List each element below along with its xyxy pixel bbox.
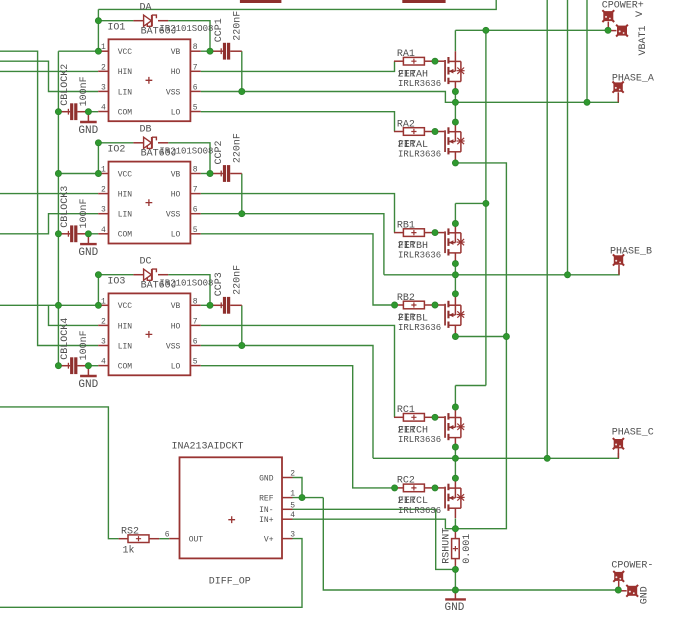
- wire VB1 node: [201, 50, 212, 52]
- svg-text:IRLR3636: IRLR3636: [398, 323, 441, 333]
- svg-text:IRLR3636: IRLR3636: [398, 251, 441, 261]
- svg-text:LIN: LIN: [118, 88, 133, 97]
- wire CCP1 to VSS1: [241, 51, 243, 91]
- svg-text:LO: LO: [171, 363, 181, 372]
- wire VCC vertical rail: [57, 51, 59, 366]
- node junction at 242,92: [239, 88, 245, 94]
- wire GND rail bottom: [323, 498, 618, 590]
- node junction at 210,305: [207, 302, 213, 308]
- node junction at 98,305: [95, 302, 101, 308]
- wire HO2 to RB1: [201, 194, 395, 233]
- svg-text:4: 4: [101, 358, 106, 367]
- wire LO3 to RC2: [201, 366, 395, 488]
- svg-text:BAT60J: BAT60J: [141, 280, 177, 291]
- svg-text:7: 7: [193, 186, 198, 195]
- cropped component top edge left: [240, 0, 282, 3]
- wire PHASE_B line: [384, 270, 619, 275]
- pad CPOWER+: [602, 1, 644, 31]
- svg-text:7: 7: [193, 317, 198, 326]
- svg-text:BAT60J: BAT60J: [141, 26, 177, 37]
- svg-text:V+: V+: [264, 536, 274, 545]
- node junction at 435,305: [432, 302, 438, 308]
- wire PHASE_C line: [373, 453, 618, 458]
- svg-text:RSHUNT: RSHUNT: [441, 528, 452, 564]
- svg-text:5: 5: [193, 226, 198, 235]
- wire VSS2 to phase B: [201, 214, 384, 275]
- wire VCC3 from left edge: [0, 304, 98, 306]
- ground GND section 1: [78, 112, 98, 137]
- svg-text:VBAT1: VBAT1: [638, 25, 649, 55]
- node junction at 58,305: [55, 302, 61, 308]
- node junction at 455,458: [452, 455, 458, 461]
- svg-text:100nF: 100nF: [79, 330, 90, 360]
- pad GND: [618, 585, 650, 604]
- wire VBAT vertical: [485, 30, 487, 385]
- wire DC cathode to VB3: [168, 275, 210, 306]
- node junction at 455,447: [452, 444, 458, 450]
- node junction at 455,163: [452, 160, 458, 166]
- node junction at 58,112: [55, 109, 61, 115]
- transistor FETAL IRLR3636: [398, 122, 465, 162]
- svg-text:CCP1: CCP1: [214, 18, 225, 42]
- capacitor CCP2 220nF: [210, 133, 244, 182]
- node junction at 242,346: [239, 342, 245, 348]
- node junction at 587,102: [584, 99, 590, 105]
- gate driver IC IO2 IR2101SO08: [98, 145, 213, 244]
- svg-text:4: 4: [101, 104, 106, 113]
- svg-text:PHASE_B: PHASE_B: [610, 247, 652, 258]
- wire phase C node: [454, 447, 456, 478]
- gate driver IC IO3 IR2101SO08: [98, 277, 213, 376]
- wire HIN3 branch: [49, 305, 99, 325]
- node junction at 455,92: [452, 88, 458, 94]
- svg-text:6: 6: [193, 206, 198, 215]
- wire INA IN+ to shunt top: [293, 519, 456, 529]
- wire DB cathode to VB2: [168, 143, 210, 174]
- svg-text:RS2: RS2: [121, 526, 139, 537]
- svg-text:HIN: HIN: [118, 68, 133, 77]
- node junction at 88,234: [85, 231, 91, 237]
- wire PHASE_A up column: [586, 0, 588, 102]
- svg-text:PHASE_A: PHASE_A: [612, 74, 654, 85]
- svg-text:HIN: HIN: [118, 322, 133, 331]
- svg-text:CCP2: CCP2: [214, 140, 225, 164]
- diode DC BAT60J: [133, 257, 176, 292]
- capacitor CCP3 220nF: [210, 265, 244, 314]
- cropped component top edge right: [402, 0, 445, 3]
- svg-text:CPOWER+: CPOWER+: [602, 1, 644, 12]
- wire DA anode/vertical: [97, 9, 99, 51]
- wire RS2 feed from left: [0, 407, 119, 539]
- svg-text:7: 7: [193, 63, 198, 72]
- node junction at 455,294: [452, 291, 458, 297]
- wire phase A node: [454, 92, 456, 123]
- svg-text:2: 2: [290, 470, 295, 479]
- wire VSS3 to phase C: [201, 346, 373, 459]
- wire FETBH drain rail: [455, 202, 486, 204]
- ground GND at shunt: [445, 590, 466, 614]
- svg-text:IN+: IN+: [259, 516, 274, 525]
- node junction at 486,30: [483, 27, 489, 33]
- node junction at 618,590: [615, 587, 621, 593]
- svg-text:CCP3: CCP3: [214, 272, 225, 296]
- resistor RB1 4R7 gate resistor: [394, 229, 435, 237]
- svg-text:DA: DA: [140, 3, 152, 14]
- svg-text:VSS: VSS: [166, 342, 181, 351]
- wire INA REF pin: [293, 497, 324, 499]
- wire VSS1 to phase A: [201, 92, 456, 103]
- wire LO2 to RB2: [201, 234, 395, 305]
- capacitor CBLOCK2 100nF: [58, 64, 90, 120]
- node junction at 98,174: [95, 170, 101, 176]
- svg-text:IN-: IN-: [259, 506, 273, 515]
- svg-text:IO3: IO3: [107, 277, 125, 288]
- node junction at 210,174: [207, 170, 213, 176]
- node junction at 455,264: [452, 261, 458, 267]
- svg-text:6: 6: [193, 83, 198, 92]
- wire DC anode/vertical: [98, 274, 133, 276]
- wire shunt to gnd rail: [454, 569, 456, 590]
- svg-text:5: 5: [290, 501, 295, 510]
- svg-text:RB1: RB1: [397, 220, 415, 231]
- svg-text:GND: GND: [640, 586, 651, 604]
- pad PHASE_A: [612, 74, 654, 103]
- svg-text:IRLR3636: IRLR3636: [398, 79, 441, 89]
- svg-text:2: 2: [101, 63, 106, 72]
- wire LO1 to RA2: [201, 112, 395, 132]
- node junction at 506,336: [503, 333, 509, 339]
- svg-text:DC: DC: [140, 257, 152, 268]
- node junction at 435,132: [432, 128, 438, 134]
- resistor RC1 4R7 gate resistor: [394, 414, 435, 422]
- svg-text:IO2: IO2: [107, 145, 125, 156]
- svg-text:VCC: VCC: [118, 302, 133, 311]
- node junction at 58,174: [55, 170, 61, 176]
- svg-text:CBLOCK4: CBLOCK4: [60, 318, 71, 360]
- wire INA GND pin: [293, 478, 303, 498]
- gate driver IC IO1 IR2101SO08: [98, 22, 213, 121]
- op-amp U1 INA213AIDCKT DIFF_OP: [165, 442, 296, 588]
- svg-text:6: 6: [193, 338, 198, 347]
- wire HO1 to RA1: [201, 61, 395, 71]
- resistor RA2 4R7 gate resistor: [394, 128, 435, 136]
- svg-text:VCC: VCC: [118, 170, 133, 179]
- svg-text:4: 4: [290, 511, 295, 520]
- capacitor CCP1 220nF: [210, 11, 244, 60]
- wire LIN1 from left edge: [0, 61, 98, 91]
- svg-text:8: 8: [193, 166, 198, 175]
- node junction at 455,102: [452, 99, 458, 105]
- svg-text:V: V: [635, 11, 646, 17]
- transistor FETCL IRLR3636: [398, 478, 465, 518]
- wire HO3 to RC1: [201, 325, 395, 417]
- wire CCP3 to VSS3: [241, 305, 243, 345]
- resistor RA1 4R7 gate resistor: [394, 57, 435, 65]
- diode DB BAT60J: [133, 125, 176, 160]
- svg-text:VB: VB: [171, 48, 181, 57]
- wire VCC top bootstrap feed: [98, 0, 496, 9]
- svg-text:COM: COM: [118, 231, 133, 240]
- node junction at 608,30: [605, 27, 611, 33]
- resistor RSHUNT 0.001: [441, 528, 473, 570]
- svg-text:HO: HO: [171, 68, 181, 77]
- svg-text:100nF: 100nF: [79, 76, 90, 106]
- svg-text:BAT60J: BAT60J: [141, 148, 177, 159]
- wire INA V+ return: [0, 539, 302, 608]
- svg-text:IO1: IO1: [107, 22, 125, 33]
- transistor FETBH IRLR3636: [398, 224, 465, 263]
- wire VB3 node: [201, 304, 212, 306]
- node junction at 210,51: [207, 48, 213, 54]
- svg-text:RC1: RC1: [397, 405, 415, 416]
- resistor RS2 1k: [119, 526, 160, 556]
- wire DB anode/vertical: [98, 142, 133, 144]
- node junction at 568,275: [564, 272, 570, 278]
- svg-text:IRLR3636: IRLR3636: [398, 435, 441, 445]
- pad CPOWER-: [611, 561, 653, 590]
- svg-text:2: 2: [101, 186, 106, 195]
- node junction at 455,529: [452, 526, 458, 532]
- svg-text:3: 3: [101, 83, 106, 92]
- svg-text:100nF: 100nF: [79, 198, 90, 228]
- svg-text:RB2: RB2: [397, 293, 415, 304]
- node junction at 435,417: [432, 414, 438, 420]
- pad PHASE_B: [610, 247, 652, 275]
- svg-text:RA2: RA2: [397, 119, 415, 130]
- wire FETAH drain from VBAT rail: [454, 30, 456, 51]
- svg-text:1k: 1k: [123, 544, 135, 556]
- svg-text:OUT: OUT: [189, 536, 204, 545]
- node junction at 58,366: [55, 363, 61, 369]
- wire HIN1 from left edge: [0, 70, 98, 72]
- svg-text:CPOWER-: CPOWER-: [611, 561, 653, 572]
- node junction at 88,366: [85, 363, 91, 369]
- svg-text:LIN: LIN: [118, 342, 133, 351]
- svg-text:PHASE_C: PHASE_C: [612, 428, 654, 439]
- node junction at 486,203: [483, 200, 489, 206]
- node junction at 58,234: [55, 231, 61, 237]
- svg-text:VSS: VSS: [166, 88, 181, 97]
- transistor FETCH IRLR3636: [398, 407, 465, 448]
- node junction at 98,21: [95, 18, 101, 24]
- wire DA cathode to VB1: [168, 21, 210, 52]
- diode DA BAT60J: [133, 3, 176, 38]
- node junction at 455,275: [452, 272, 458, 278]
- wire FETBL source to bus: [455, 336, 506, 338]
- wire PHASE_B up column: [567, 0, 569, 275]
- svg-text:IRLR3636: IRLR3636: [398, 149, 441, 159]
- svg-text:3: 3: [290, 531, 295, 540]
- wire LIN3 from left edge: [0, 51, 98, 345]
- wire HIN2 from left edge: [0, 193, 98, 195]
- wire VB2 node: [201, 173, 212, 175]
- svg-text:5: 5: [193, 104, 198, 113]
- node junction at 98,51: [95, 48, 101, 54]
- wire VCC1 row: [58, 50, 98, 52]
- wire FETCH drain rail: [455, 385, 486, 387]
- node junction at 455,478: [452, 475, 458, 481]
- svg-text:GND: GND: [78, 379, 98, 391]
- wire COM1 to cap: [88, 111, 98, 113]
- node junction at 395,305: [392, 302, 398, 308]
- svg-text:HIN: HIN: [118, 191, 133, 200]
- wire LIN2 from left edge: [0, 214, 98, 234]
- node junction at 435,61: [432, 58, 438, 64]
- node junction at 302,498: [299, 495, 305, 501]
- svg-text:REF: REF: [259, 495, 274, 504]
- pad PHASE_C: [612, 428, 654, 459]
- wire VCC2 row: [58, 173, 98, 175]
- node junction at 88,112: [85, 109, 91, 115]
- node junction at 435,488: [432, 485, 438, 491]
- svg-text:5: 5: [193, 358, 198, 367]
- node junction at 547,458: [544, 455, 550, 461]
- svg-text:CBLOCK3: CBLOCK3: [60, 186, 71, 228]
- svg-text:DIFF_OP: DIFF_OP: [209, 576, 251, 587]
- transistor FETBL IRLR3636: [398, 294, 465, 335]
- node junction at 455,336: [452, 333, 458, 339]
- svg-text:RC2: RC2: [397, 476, 415, 487]
- wire PHASE_A line: [455, 97, 618, 102]
- resistor RC2 4R7 gate resistor: [394, 484, 435, 492]
- svg-text:IRLR3636: IRLR3636: [398, 506, 441, 516]
- svg-text:VSS: VSS: [166, 211, 181, 220]
- svg-text:2: 2: [101, 317, 106, 326]
- capacitor CBLOCK4 100nF: [58, 318, 90, 374]
- transistor FETAH IRLR3636: [398, 51, 465, 91]
- svg-text:HO: HO: [171, 322, 181, 331]
- svg-text:3: 3: [101, 338, 106, 347]
- wire VBAT rail: [455, 29, 608, 31]
- wire PHASE_C up column: [546, 0, 548, 458]
- node junction at 455,224: [452, 220, 458, 226]
- svg-text:LO: LO: [171, 108, 181, 117]
- svg-text:VCC: VCC: [118, 48, 133, 57]
- svg-text:VB: VB: [171, 170, 181, 179]
- svg-text:220nF: 220nF: [233, 265, 244, 295]
- wire FETCL source: [454, 518, 456, 528]
- node junction at 455,407: [452, 404, 458, 410]
- wire CCP2 to VSS2: [241, 174, 243, 214]
- svg-text:CBLOCK2: CBLOCK2: [60, 64, 71, 106]
- svg-text:GND: GND: [78, 125, 98, 137]
- svg-text:1: 1: [290, 490, 295, 499]
- node junction at 455,569: [452, 566, 458, 572]
- svg-text:RA1: RA1: [397, 49, 415, 60]
- capacitor CBLOCK3 100nF: [58, 186, 90, 242]
- svg-text:HO: HO: [171, 191, 181, 200]
- wire INA IN- to shunt bottom: [293, 509, 456, 569]
- svg-text:3: 3: [101, 206, 106, 215]
- svg-text:LO: LO: [171, 231, 181, 240]
- wire COM3 to cap: [88, 365, 98, 367]
- node junction at 395,488: [392, 485, 398, 491]
- wire low-side source bus: [455, 163, 506, 529]
- svg-text:LIN: LIN: [118, 211, 133, 220]
- svg-text:COM: COM: [118, 108, 133, 117]
- svg-text:GND: GND: [78, 247, 98, 259]
- pad VBAT1: [608, 11, 649, 56]
- svg-text:DB: DB: [140, 125, 152, 136]
- svg-text:INA213AIDCKT: INA213AIDCKT: [172, 442, 244, 453]
- node junction at 455,122: [452, 119, 458, 125]
- ground GND section 2: [78, 234, 98, 259]
- svg-text:GND: GND: [445, 602, 465, 614]
- svg-text:8: 8: [193, 297, 198, 306]
- svg-text:COM: COM: [118, 363, 133, 372]
- wire phase B node: [454, 264, 456, 294]
- node junction at 455,590: [452, 587, 458, 593]
- svg-text:8: 8: [193, 43, 198, 52]
- node junction at 242,214: [239, 211, 245, 217]
- node junction at 435,233: [432, 230, 438, 236]
- svg-text:220nF: 220nF: [233, 11, 244, 41]
- svg-text:0.001: 0.001: [462, 534, 473, 564]
- node junction at 98,143: [95, 140, 101, 146]
- node junction at 98,275: [95, 272, 101, 278]
- ground GND section 3: [78, 366, 98, 391]
- svg-text:4: 4: [101, 226, 106, 235]
- wire COM2 to cap: [88, 233, 98, 235]
- svg-text:220nF: 220nF: [233, 133, 244, 163]
- wire RS2 to OUT: [159, 538, 169, 540]
- svg-text:GND: GND: [259, 474, 274, 483]
- resistor RB2 4R7 gate resistor: [394, 301, 435, 309]
- svg-text:VB: VB: [171, 302, 181, 311]
- svg-text:6: 6: [165, 531, 170, 540]
